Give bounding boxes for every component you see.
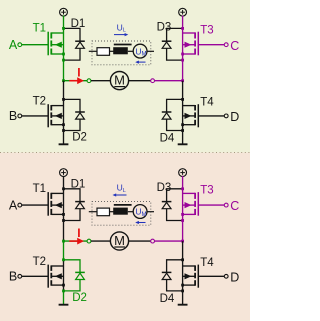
svg-text:C: C	[230, 39, 239, 53]
svg-text:D2: D2	[72, 131, 87, 143]
wire inductor to EMF source	[128, 50, 134, 52]
transistor T1 middle (source/bulk) tap	[51, 204, 63, 206]
inductor L core bar	[114, 44, 132, 46]
transistor T1 middle (source/bulk) tap	[51, 44, 63, 46]
terminal C circle	[224, 203, 228, 207]
transistor T3 middle (source/bulk) tap	[183, 44, 196, 46]
wire: left node down to D2 junction	[63, 81, 65, 100]
diode D3 cathode bar	[162, 40, 172, 42]
diode D4	[162, 99, 183, 130]
wire: terminal to motor	[91, 240, 111, 242]
open terminal circle left of motor	[87, 239, 91, 243]
transistor T3	[183, 192, 199, 216]
diode D4 cathode bar	[162, 111, 172, 113]
transistor T3 middle (source/bulk) tap	[183, 204, 196, 206]
terminal C circle	[224, 43, 228, 47]
wire out of box	[147, 50, 154, 52]
diode D1 bottom corner wire	[64, 209, 81, 221]
diode D3 top corner wire	[167, 189, 183, 202]
transistor T3 top tap	[183, 192, 196, 194]
svg-text:C: C	[230, 199, 239, 213]
svg-text:A: A	[9, 38, 18, 52]
diode D3 bottom corner wire	[167, 48, 183, 60]
transistor T1 bottom tap	[51, 53, 63, 55]
transistor T4 top tap	[183, 265, 196, 267]
ground right	[178, 131, 188, 145]
wire: right supply to node (main right leg, magenta)	[182, 16, 184, 81]
svg-text:D: D	[230, 110, 239, 124]
transistor T3 bulk arrow	[185, 202, 192, 208]
diode D2 triangle	[76, 273, 85, 279]
diode D2 top corner wire	[64, 99, 81, 112]
wire into box	[89, 211, 97, 213]
wire: gate of T2 from terminal B	[22, 275, 49, 277]
wire: right leg lower segment past T4	[182, 260, 184, 291]
node B-out (right bridge output)	[181, 240, 184, 243]
wire: motor to right terminal	[128, 80, 150, 82]
diode D4 triangle	[162, 113, 171, 119]
wire: node to motor terminal (left, green)	[64, 240, 88, 242]
diode D4 bottom corner wire	[167, 280, 183, 291]
terminal B circle	[18, 274, 22, 278]
panel 2 background (freewheeling state)	[0, 153, 250, 321]
svg-text:T3: T3	[200, 185, 213, 197]
svg-text:M: M	[114, 233, 125, 248]
svg-text:D3: D3	[157, 21, 172, 33]
wire: gate of T4 from terminal D	[198, 115, 224, 117]
supply terminal + (left)	[60, 8, 68, 16]
transistor T4 bottom tap	[183, 124, 196, 126]
label M with underline	[114, 73, 125, 88]
transistor T3 channel bar	[194, 193, 196, 199]
transistor T2 bottom tap	[51, 284, 63, 286]
resistor R (motor winding resistance)	[97, 208, 110, 216]
arrow U_L (blue, pointing left)	[113, 193, 127, 196]
wire: gate of T3 from terminal C	[198, 204, 224, 206]
transistor T4 gate bar	[197, 265, 199, 288]
ground left	[59, 291, 69, 305]
transistor T2 bulk arrow	[55, 113, 62, 119]
transistor T4 channel bar	[194, 105, 196, 111]
transistor T3 bottom tap	[183, 53, 196, 55]
diode D4 bottom corner wire	[167, 119, 183, 130]
supply terminal + (right)	[179, 169, 187, 177]
transistor T2 bottom tap	[51, 124, 63, 126]
wire resistor to inductor	[110, 50, 115, 52]
EMF source U_M circle	[133, 205, 147, 219]
transistor T4 bottom tap	[183, 284, 196, 286]
transistor T1 bulk arrow	[55, 42, 62, 48]
diode D3 bottom corner wire	[167, 209, 183, 221]
diode D3 triangle	[162, 202, 171, 208]
diode D2 top corner wire	[64, 260, 81, 273]
arrow U_M (blue, left)	[135, 221, 145, 224]
junction dots on right leg (D3 corners, T3 bottom tap)	[181, 187, 184, 190]
diode D4	[162, 260, 183, 291]
transistor T4 bulk arrow	[185, 273, 192, 279]
wire: right leg lower segment past T4	[182, 99, 184, 130]
svg-text:I: I	[77, 226, 80, 240]
diode D4 top corner wire	[167, 99, 183, 112]
diode D2	[64, 260, 85, 291]
transistor T4 top tap	[183, 105, 196, 107]
transistor T4 middle (source/bulk) tap	[183, 115, 196, 117]
supply terminal + (left)	[60, 169, 68, 177]
open terminal circle left of motor	[87, 79, 91, 83]
transistor T1	[48, 32, 63, 56]
diode D1 bottom corner wire	[64, 48, 81, 60]
transistor T2 bulk arrow	[55, 273, 62, 279]
svg-text:D3: D3	[157, 182, 172, 194]
inductor L core bar	[114, 204, 132, 206]
diode D3 triangle	[162, 42, 171, 48]
panel separator (dotted)	[0, 152, 250, 154]
wire: terminal to right node (magenta)	[155, 80, 183, 82]
EMF source U_M circle	[133, 44, 147, 58]
svg-text:D1: D1	[71, 179, 86, 191]
wire: left leg lower segment past T2	[63, 99, 65, 130]
diode D1 top corner wire	[64, 28, 81, 41]
wire: right supply to node (main right leg, magenta)	[182, 176, 184, 241]
diode D2 bottom corner wire	[64, 280, 81, 291]
diode D3	[162, 189, 183, 221]
node A-out (left bridge output)	[62, 79, 65, 82]
terminal D circle	[224, 114, 228, 118]
terminal A circle	[18, 43, 22, 47]
current arrow I (red)	[69, 77, 84, 84]
diode D3 cathode bar	[162, 201, 172, 203]
transistor T4	[183, 104, 199, 127]
diode D1 top corner wire	[64, 189, 81, 202]
motor model box (dashed)	[92, 41, 151, 65]
wire: left node down to D2 junction	[63, 241, 65, 260]
transistor T3 gate bar	[197, 32, 199, 56]
transistor T3 bottom tap	[183, 213, 196, 215]
wire resistor to inductor	[110, 211, 115, 213]
svg-text:D: D	[230, 270, 239, 284]
diode D1 triangle	[76, 202, 85, 208]
svg-text:T1: T1	[33, 22, 46, 34]
transistor T1 bulk arrow	[55, 202, 62, 208]
diode D2 cathode bar	[75, 271, 85, 273]
diode D1 triangle	[76, 42, 85, 48]
svg-text:B: B	[9, 109, 17, 123]
transistor T2 gate bar	[47, 265, 49, 288]
wire inductor to EMF source	[128, 211, 134, 213]
node A-out (left bridge output)	[62, 240, 65, 243]
wire into box	[89, 50, 97, 52]
wire: right node down to D4 junction	[182, 241, 184, 260]
transistor T2 top tap	[51, 265, 63, 267]
wire out of box	[147, 211, 154, 213]
wire: gate of T1 from terminal A	[22, 204, 49, 206]
diode D3	[162, 28, 183, 60]
transistor T4 channel bar	[194, 265, 196, 271]
svg-text:T4: T4	[200, 257, 214, 269]
transistor T4 middle (source/bulk) tap	[183, 275, 196, 277]
wire: terminal to motor	[91, 80, 111, 82]
diode D1	[64, 28, 85, 60]
transistor T1	[48, 192, 63, 216]
svg-text:T2: T2	[33, 96, 46, 108]
junction dots lower right leg	[181, 98, 184, 101]
open terminal circle right of motor	[151, 79, 155, 83]
diode D4 top corner wire	[167, 260, 183, 273]
transistor T3 top tap	[183, 32, 196, 34]
transistor T1 channel bar	[50, 32, 52, 38]
motor M circle	[110, 232, 128, 250]
wire: motor to right terminal	[128, 240, 150, 242]
inductor L body	[113, 208, 128, 215]
supply terminal + (right)	[179, 8, 187, 16]
transistor T2 middle (source/bulk) tap	[51, 275, 63, 277]
wire: gate of T3 from terminal C	[198, 44, 224, 46]
wire: terminal to right node (magenta)	[155, 240, 183, 242]
node B-out (right bridge output)	[181, 79, 184, 82]
inductor L body	[113, 47, 128, 54]
terminal D circle	[224, 274, 228, 278]
svg-text:B: B	[9, 269, 17, 283]
junction dots on left leg (D1 corners, T1 bottom tap)	[62, 187, 65, 190]
motor model box (dashed)	[92, 201, 151, 225]
wire: left leg lower segment past T2	[63, 260, 65, 291]
transistor T3 bulk arrow	[185, 42, 192, 48]
panel 1 background (motoring state)	[0, 0, 250, 153]
wire: left supply to node (main left leg)	[63, 176, 65, 241]
junction dots lower left leg	[62, 98, 65, 101]
svg-text:T1: T1	[33, 183, 46, 195]
junction dots lower right leg	[181, 258, 184, 261]
arrow U_L (blue, pointing right)	[114, 33, 128, 36]
diode D2 bottom corner wire	[64, 119, 81, 130]
svg-text:A: A	[9, 198, 18, 212]
wire: node to motor terminal (left, green)	[64, 80, 88, 82]
current arrow I (red)	[69, 238, 84, 245]
terminal A circle	[18, 203, 22, 207]
transistor T2 gate bar	[47, 104, 49, 127]
resistor R (motor winding resistance)	[97, 48, 110, 56]
open terminal circle right of motor	[151, 239, 155, 243]
diode D4 cathode bar	[162, 271, 172, 273]
junction dots on left leg (D1 corners, T1 bottom tap)	[62, 27, 65, 30]
svg-text:T2: T2	[33, 256, 46, 268]
wire: gate of T1 from terminal A	[22, 44, 49, 46]
transistor T2	[48, 104, 63, 127]
diode D1	[64, 189, 85, 221]
svg-text:D1: D1	[71, 18, 86, 30]
wire: right node down to D4 junction	[182, 81, 184, 100]
svg-text:T4: T4	[200, 97, 214, 109]
svg-text:M: M	[114, 73, 125, 88]
transistor T3	[183, 32, 199, 56]
wire: gate of T2 from terminal B	[22, 115, 49, 117]
ground right	[178, 291, 188, 305]
svg-text:I: I	[77, 65, 80, 79]
ground left	[59, 131, 69, 145]
diode D4 triangle	[162, 273, 171, 279]
transistor T1 bottom tap	[51, 213, 63, 215]
wire: left supply to node (main left leg)	[63, 16, 65, 81]
transistor T4 bulk arrow	[185, 113, 192, 119]
diode D2 triangle	[76, 113, 85, 119]
diode D1 cathode bar	[75, 201, 85, 203]
transistor T1 channel bar	[50, 193, 52, 199]
transistor T4	[183, 265, 199, 288]
svg-text:T3: T3	[200, 24, 213, 36]
wire: gate of T4 from terminal D	[198, 275, 224, 277]
arrow U_M (blue, left)	[135, 61, 145, 64]
transistor T2 top tap	[51, 105, 63, 107]
transistor T2 channel bar	[50, 265, 52, 271]
diode D1 cathode bar	[75, 40, 85, 42]
junction dots on right leg (D3 corners, T3 bottom tap)	[181, 27, 184, 30]
transistor T1 top tap	[51, 32, 63, 34]
diode D2 cathode bar	[75, 111, 85, 113]
motor M circle	[110, 72, 128, 90]
svg-text:D4: D4	[160, 133, 175, 145]
svg-text:D2: D2	[72, 292, 87, 304]
transistor T2 middle (source/bulk) tap	[51, 115, 63, 117]
junction dots lower left leg	[62, 258, 65, 261]
diode D3 top corner wire	[167, 28, 183, 41]
svg-text:D4: D4	[160, 293, 175, 305]
transistor T2 channel bar	[50, 105, 52, 111]
transistor T2	[48, 265, 63, 288]
transistor T3 gate bar	[197, 192, 199, 216]
label M with underline	[114, 233, 125, 248]
transistor T4 gate bar	[197, 104, 199, 127]
terminal B circle	[18, 114, 22, 118]
transistor T3 channel bar	[194, 32, 196, 38]
diode D2	[64, 99, 85, 130]
transistor T1 top tap	[51, 192, 63, 194]
transistor T1 gate bar	[47, 32, 49, 56]
transistor T1 gate bar	[47, 192, 49, 216]
